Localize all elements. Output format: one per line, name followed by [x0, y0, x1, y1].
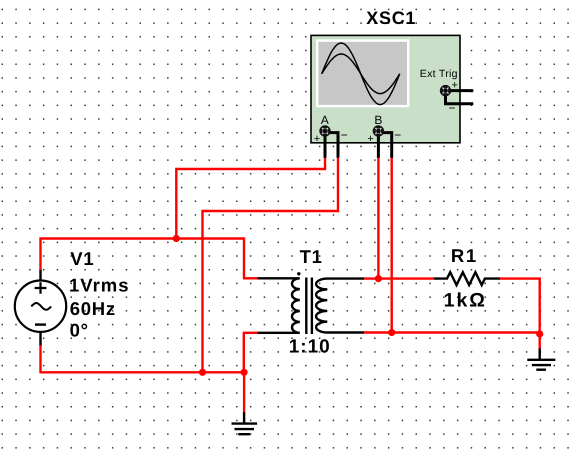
ground (middle, bottom of V1 net) — [232, 424, 258, 435]
wire: bottom horizontal from V1 to middle ground junction — [39, 371, 244, 373]
V1 sine symbol — [31, 303, 51, 310]
svg-text:Ext Trig: Ext Trig — [420, 68, 458, 80]
wire: top horizontal from V1 to transformer corner — [39, 237, 244, 239]
svg-text:−: − — [449, 101, 456, 115]
voltage source V1 circle — [15, 281, 66, 332]
svg-text:+: + — [367, 133, 373, 145]
junction: bottom wire / transformer / ground — [241, 369, 248, 376]
scope waveform channel B — [322, 54, 400, 94]
wire: middle ground black lead — [243, 412, 245, 423]
svg-text:−: − — [394, 128, 401, 142]
wire: middle ground vertical red — [243, 372, 245, 413]
resistor R1 body — [434, 272, 500, 285]
wire: transformer left bottom red stub — [243, 332, 258, 334]
junction: A- on bottom wire — [199, 369, 206, 376]
wire: V1 bottom black lead — [39, 332, 41, 345]
scope terminal B — [374, 127, 382, 135]
wire: resistor right red to corner and down — [500, 279, 540, 334]
svg-text:V1: V1 — [70, 248, 94, 269]
scope pin stub: Ext Trig plus — [449, 89, 473, 92]
wire: transformer left top black lead — [258, 277, 294, 279]
wire: right ground vertical red — [539, 334, 541, 350]
V1 plus mark — [35, 282, 47, 293]
wire: transformer left bottom black lead — [258, 332, 294, 334]
V1 minus mark — [35, 323, 46, 325]
wire: transformer right bottom black lead — [328, 331, 365, 333]
scope pin stub: B minus — [382, 133, 391, 158]
oscilloscope XSC1 body — [311, 35, 460, 142]
junction: A+ on top wire — [173, 235, 180, 242]
wire: scope B- channel red down to transformer right bottom wire — [391, 158, 393, 333]
svg-text:0°: 0° — [70, 320, 89, 341]
transformer T1 core — [306, 278, 312, 335]
transformer T1 polarity dot — [297, 272, 300, 275]
svg-text:60Hz: 60Hz — [70, 298, 116, 319]
wire: scope A+ channel red (down, left, down to top wire) — [176, 158, 325, 239]
wire: vertical down to transformer left top lead — [243, 237, 245, 278]
wire: V1 bottom vertical red — [39, 345, 41, 373]
svg-text:1Vrms: 1Vrms — [69, 274, 130, 295]
junction: B- on transformer right bottom wire — [388, 329, 395, 336]
wire: scope B+ channel red down to transformer right top wire — [377, 158, 379, 279]
scope terminal A — [321, 127, 329, 135]
svg-text:XSC1: XSC1 — [366, 8, 416, 28]
transformer T1 left winding — [292, 278, 300, 332]
svg-text:−: − — [341, 128, 348, 142]
wire: right ground black lead — [539, 349, 541, 360]
transformer T1 right winding — [316, 279, 327, 333]
svg-text:R1: R1 — [451, 245, 478, 266]
wire: transformer left top red stub — [243, 277, 258, 279]
svg-text:B: B — [374, 113, 382, 127]
oscilloscope screen — [317, 41, 408, 107]
scope pin stub: B plus — [377, 135, 380, 158]
wire: V1 top black lead — [39, 270, 41, 283]
scope pin stub: Ext Trig minus — [446, 94, 474, 104]
wire: vertical from transformer left bottom lead down to bottom wire — [243, 333, 245, 373]
svg-text:+: + — [452, 80, 458, 92]
scope terminal Ext Trig — [441, 86, 449, 94]
ground (right, R1 net) — [527, 360, 555, 370]
scope waveform channel A — [322, 43, 400, 105]
wire: V1 top vertical red — [39, 239, 41, 271]
svg-text:T1: T1 — [300, 246, 323, 267]
junction: R1 right corner on bottom wire — [536, 330, 543, 337]
junction: B+ on transformer right top wire — [375, 275, 382, 282]
wire: transformer right bottom red to right corner — [364, 331, 540, 333]
svg-text:A: A — [321, 113, 329, 127]
scope pin stub: A minus — [329, 133, 338, 158]
svg-text:1:10: 1:10 — [289, 337, 331, 358]
svg-text:+: + — [314, 133, 320, 145]
wire: transformer right top red to resistor R1 — [364, 277, 435, 279]
wire: scope A- channel red (down, left, down to bottom wire) — [203, 158, 339, 373]
svg-text:1kΩ: 1kΩ — [444, 290, 487, 312]
scope pin stub: A plus — [324, 135, 327, 158]
wire: transformer right top black lead — [328, 277, 365, 279]
